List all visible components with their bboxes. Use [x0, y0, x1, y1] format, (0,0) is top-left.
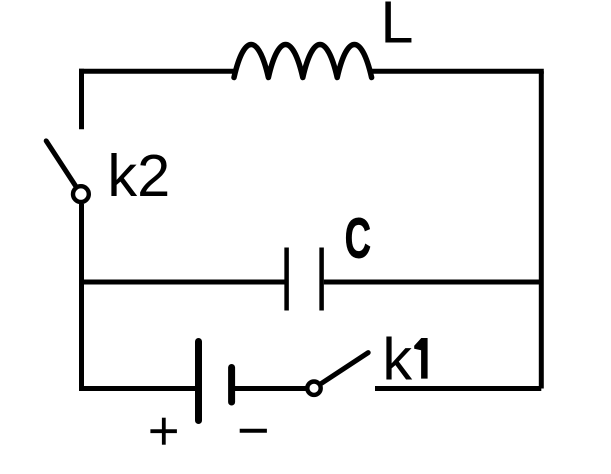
switch k2 contact circle	[73, 186, 89, 202]
wire bottom-middle horizontal (battery - to switch k1)	[235, 386, 307, 391]
svg-text:L: L	[381, 0, 414, 56]
wire middle-left horizontal (to capacitor)	[82, 280, 285, 285]
switch k1 contact circle	[307, 382, 320, 395]
capacitor C right plate	[319, 248, 324, 311]
wire left upper stub (top corner to switch k2)	[79, 69, 84, 130]
switch k1 label digit 1	[414, 338, 427, 379]
wire top-left horizontal segment	[79, 69, 237, 74]
wire bottom-right horizontal (switch k1 to right corner)	[375, 386, 541, 391]
inductor L coil	[234, 45, 372, 78]
battery B1 positive long plate	[195, 342, 202, 421]
wire top-right horizontal segment	[370, 69, 544, 74]
battery plus label	[150, 418, 177, 445]
battery minus label	[240, 429, 267, 433]
svg-text:k2: k2	[107, 142, 170, 209]
svg-text:k: k	[382, 326, 412, 393]
capacitor C left plate	[284, 248, 289, 311]
wire right vertical	[539, 71, 544, 388]
wire middle-right horizontal (capacitor to right wire)	[324, 280, 542, 285]
switch k1 blade	[322, 353, 369, 384]
svg-text:C: C	[345, 207, 371, 270]
switch k2 blade	[46, 141, 76, 186]
wire left lower vertical (switch k2 to bottom wire)	[79, 204, 84, 391]
battery B1 negative short plate	[228, 368, 235, 403]
wire bottom-left horizontal (to battery +)	[79, 386, 195, 391]
